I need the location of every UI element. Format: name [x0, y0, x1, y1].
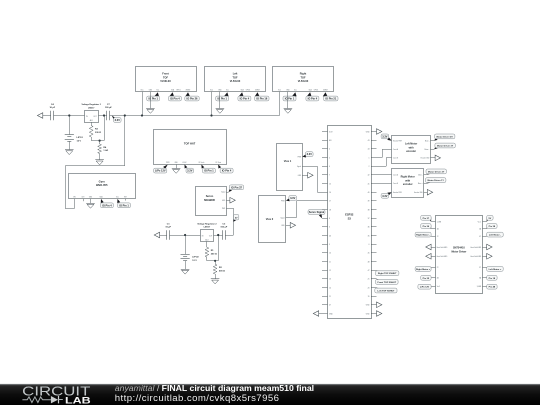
wire Right VCC [279, 92, 281, 116]
svg-text:7: 7 [329, 175, 330, 177]
net flag Right Motor + (driver left pin 6) [415, 267, 431, 272]
wire Vive1 signal [302, 166, 322, 192]
svg-text:OUT: OUT [93, 116, 96, 118]
wire gyro VIN feed [65, 116, 125, 209]
svg-text:SCL: SCL [116, 196, 119, 198]
svg-text:IO Pin 4: IO Pin 4 [240, 97, 250, 101]
svg-text:Vcc1: Vcc1 [478, 222, 482, 224]
svg-text:GPIO1: GPIO1 [314, 89, 319, 91]
svg-text:45: 45 [368, 253, 370, 255]
svg-text:Signal: Signal [297, 166, 302, 168]
net flag IO Pin 1 (HAT SCL) [201, 165, 215, 174]
svg-text:3.3V: 3.3V [115, 118, 121, 122]
svg-text:XSHUT: XSHUT [255, 89, 260, 91]
op-amp U1 Voltage Regulator 1 LM317 [82, 103, 102, 123]
svg-text:VL53L0X: VL53L0X [160, 80, 171, 83]
net flag IO Pin 26 (Front XSHUT) [185, 92, 199, 101]
net flag Front TOF XSHUT (ESP32) [376, 279, 399, 285]
svg-text:Motor Driver 3Y: Motor Driver 3Y [437, 145, 454, 148]
svg-text:Vcc2: Vcc2 [437, 286, 441, 288]
svg-text:43: 43 [368, 140, 370, 142]
svg-text:TOF: TOF [233, 76, 238, 79]
op-amp U7 Voltage Regulator 2 LM317 [197, 222, 217, 241]
svg-text:Motor Driver 4Y: Motor Driver 4Y [437, 135, 454, 138]
terminal servo GND [226, 197, 235, 203]
svg-text:20: 20 [368, 287, 370, 289]
sensor U4 Right TOF VL53L0X [273, 67, 334, 92]
net flag 3.3V (RightMotor Encoder PWR) [381, 192, 392, 198]
svg-text:12 V: 12 V [192, 260, 197, 262]
wire Front VCC [142, 92, 144, 116]
sensor U8 Vive 1 [277, 144, 303, 191]
svg-text:Right: Right [300, 73, 307, 76]
terminal RightMotor Encoder GND [424, 189, 433, 195]
svg-text:GND: GND [218, 89, 221, 91]
svg-text:VCC: VCC [210, 89, 213, 91]
svg-text:IO Pin 1: IO Pin 1 [148, 97, 158, 101]
capacitor C4 [49, 103, 55, 121]
node 3.3V flag tap [112, 116, 121, 123]
node gyro feed rail [124, 114, 126, 116]
node divider 2 [214, 260, 216, 262]
svg-text:4: 4 [329, 149, 330, 151]
net flag IO Pin 4 (Left SDA) [238, 92, 251, 101]
svg-text:Servo Signal: Servo Signal [309, 210, 325, 214]
svg-text:VCC: VCC [140, 89, 143, 91]
svg-text:10 µF: 10 µF [165, 226, 171, 228]
sensor U9 Vive 2 [259, 196, 286, 243]
wire battery to ground [69, 141, 71, 149]
footer title line [115, 383, 314, 393]
net flag 3.3V (HAT LOGIC) [185, 165, 194, 174]
wire gyro GND [90, 199, 92, 203]
servo M1 MG996R [196, 187, 227, 216]
svg-text:XSHUT: XSHUT [323, 89, 328, 91]
terminal ESP32 GND right 1 [377, 302, 382, 308]
terminal input T2 [154, 232, 159, 238]
svg-text:10: 10 [329, 253, 331, 255]
svg-text:39: 39 [368, 201, 370, 203]
node feedback 2 top [217, 234, 219, 236]
svg-text:Pin 48: Pin 48 [489, 286, 496, 289]
svg-text:17: 17 [329, 201, 331, 203]
sensor U2 Front TOF VL53L0X [136, 67, 197, 92]
svg-text:Left Motor +: Left Motor + [489, 268, 502, 271]
svg-text:anyamittal / FINAL circuit dia: anyamittal / FINAL circuit diagram meam5… [115, 383, 314, 393]
svg-text:OUT: OUT [209, 235, 212, 237]
svg-text:Encoder PWR: Encoder PWR [393, 192, 402, 194]
wire Left GND [219, 92, 221, 109]
terminal Vive1 GND [302, 172, 313, 178]
svg-text:SN754410: SN754410 [453, 246, 465, 249]
svg-text:42: 42 [368, 175, 370, 177]
net flag Motor Driver 3Y (LeftMotor Motor+) [431, 143, 456, 149]
wire Left VCC [211, 92, 213, 116]
svg-text:37: 37 [368, 218, 370, 220]
svg-text:40: 40 [368, 192, 370, 194]
svg-text:SCL: SCL [226, 89, 229, 91]
wire ADJ pin 2 [206, 242, 208, 248]
net flag 5V (driver right pin 16) [487, 215, 494, 221]
svg-text:5: 5 [329, 157, 330, 159]
svg-text:Vive 1: Vive 1 [284, 159, 292, 163]
terminal Vive2 GND [286, 223, 296, 229]
wire R4 top [99, 141, 101, 144]
wire ESP32 to RightMotor CountA [377, 174, 392, 176]
wire Vive2 signal [286, 201, 322, 218]
wire R4 to ground [99, 154, 101, 160]
svg-text:Right Motor -: Right Motor - [416, 234, 430, 237]
net flag Pin 48 (driver right pin 9) [487, 284, 497, 289]
battery LIPO2 [181, 255, 200, 263]
svg-text:IO Pin 37: IO Pin 37 [231, 185, 242, 189]
svg-text:IO Pin 21: IO Pin 21 [325, 97, 336, 101]
svg-text:IO Pin 4: IO Pin 4 [102, 203, 112, 207]
svg-text:TOF: TOF [163, 76, 168, 79]
node Left VCC rail [210, 114, 212, 116]
terminal LeftMotor Encoder GND [431, 155, 441, 161]
terminal ESP32 GND left [313, 311, 322, 317]
ground below LIPO2 [181, 270, 190, 275]
svg-text:Pin 36: Pin 36 [423, 226, 430, 228]
resistor R1 [205, 247, 217, 257]
svg-text:PWR: PWR [281, 200, 284, 202]
svg-text:LiPo 12V: LiPo 12V [155, 169, 166, 173]
svg-text:12 V: 12 V [77, 141, 82, 143]
ground below R4 [95, 160, 104, 165]
net flag IO Pin 1 (Front SCL) [147, 92, 160, 101]
svg-text:encoder: encoder [403, 183, 413, 186]
net flag IO Pin 1 (Left SCL) [216, 92, 229, 101]
svg-text:IO Pin 26: IO Pin 26 [187, 97, 198, 101]
ground Front TOF [146, 109, 155, 114]
sensor U6 Gyro BNO-055 [69, 174, 136, 199]
svg-text:Pin 38: Pin 38 [489, 226, 496, 228]
module U5 TOF HAT [154, 130, 227, 165]
wire ESP32 to LeftMotor CountB [377, 158, 392, 167]
svg-text:11: 11 [329, 261, 331, 263]
net flag Servo Signal (ESP32) [308, 210, 325, 219]
svg-text:41: 41 [368, 183, 370, 185]
svg-text:47: 47 [368, 270, 370, 272]
net flag 3.3V (LeftMotor Encoder PWR) [381, 134, 392, 141]
footer bar [0, 384, 540, 405]
svg-text:LOGIC: LOGIC [182, 162, 186, 164]
svg-text:S3: S3 [348, 216, 352, 220]
net flag Right TOF XSHUT (ESP32) [376, 270, 399, 275]
svg-text:Encoder GND: Encoder GND [421, 158, 430, 160]
capacitor C1 [165, 223, 171, 240]
svg-text:19: 19 [368, 296, 370, 298]
svg-text:IO Pin 1: IO Pin 1 [285, 97, 295, 101]
svg-text:Motor Driver 2Y: Motor Driver 2Y [428, 170, 445, 173]
svg-text:IO Pin 4: IO Pin 4 [222, 169, 232, 173]
svg-text:Left Motor -: Left Motor - [489, 234, 501, 237]
svg-text:Encoder GND: Encoder GND [414, 192, 423, 194]
node feedback top [103, 114, 105, 116]
svg-text:Left TOF XSHUT: Left TOF XSHUT [377, 290, 395, 293]
svg-text:6: 6 [329, 166, 330, 168]
net flag IO Pin 4 (Front SDA) [168, 92, 181, 101]
svg-text:12: 12 [329, 270, 331, 272]
net flag 5V (servo supply) [233, 214, 238, 221]
svg-text:1,2EN: 1,2EN [437, 222, 441, 224]
net flag Pin 35 (driver left pin 7) [421, 275, 431, 280]
svg-text:3,4EN: 3,4EN [477, 286, 481, 288]
svg-text:GND: GND [89, 196, 92, 198]
net flag Left Motor + (driver right pin 11) [487, 267, 504, 272]
net flag Motor Driver 2Y (RightMotor Motor-) [424, 169, 447, 175]
net flag IO Pin 37 (Servo Signal) [226, 185, 243, 193]
svg-text:Motor Driver 1Y: Motor Driver 1Y [428, 179, 445, 182]
svg-text:Encoder PWR: Encoder PWR [393, 141, 402, 143]
wire battery drop [69, 116, 71, 135]
svg-text:Right Motor: Right Motor [401, 176, 415, 179]
svg-text:Right TOF XSHUT: Right TOF XSHUT [378, 272, 397, 275]
svg-text:Signal: Signal [281, 217, 286, 219]
wire Right GND [287, 92, 289, 109]
resistor R4 [98, 144, 109, 154]
svg-text:Front TOF XSHUT: Front TOF XSHUT [378, 281, 397, 284]
svg-text:TOF: TOF [301, 76, 306, 79]
wire ADJ pin [91, 122, 93, 125]
svg-text:13: 13 [329, 279, 331, 281]
wire R1 to divider [207, 257, 219, 261]
net flag Left Motor - (driver right pin 14) [487, 232, 504, 237]
svg-text:15: 15 [329, 183, 331, 185]
svg-text:GND: GND [286, 89, 289, 91]
svg-text:100 µF: 100 µF [220, 226, 228, 228]
net flag IO Pin 1 (Gyro SCL) [117, 199, 130, 208]
svg-text:14: 14 [329, 287, 331, 289]
svg-text:BNO-055: BNO-055 [96, 183, 108, 187]
svg-text:38: 38 [368, 209, 370, 211]
svg-text:Pin 35: Pin 35 [423, 278, 430, 280]
motor M3 Right Motor with encoder [392, 169, 424, 198]
net flag 3.3V (Vive1 PWR) [302, 152, 313, 158]
svg-text:LM317: LM317 [88, 107, 95, 109]
terminal driver GND left 1 [426, 244, 431, 250]
svg-text:Right Motor +: Right Motor + [416, 268, 431, 271]
svg-text:47: 47 [329, 305, 331, 307]
wire R2 top [215, 261, 217, 265]
net flag Pin 38 (driver right pin 15) [487, 224, 497, 229]
sensor U3 Left TOF VL53L0X [205, 67, 266, 92]
wire ESP32 to LeftMotor CountA [377, 149, 392, 157]
logo LAB text [65, 394, 91, 405]
capacitor C7 [105, 104, 113, 121]
svg-text:35: 35 [368, 235, 370, 237]
svg-text:IO Pin 1: IO Pin 1 [204, 169, 214, 173]
svg-text:GPIO1: GPIO1 [246, 89, 251, 91]
svg-text:VL53L0X: VL53L0X [298, 80, 309, 83]
svg-text:100 µF: 100 µF [105, 107, 113, 109]
net flag Motor Driver 4Y (LeftMotor Motor-) [431, 134, 455, 141]
svg-text:1: 1 [369, 157, 370, 159]
wire ESP32 to RightMotor CountB [377, 183, 392, 185]
wire battery 2 drop [185, 235, 187, 254]
svg-text:3.3V: 3.3V [382, 134, 388, 138]
svg-text:4Y: 4Y [479, 236, 481, 238]
net flag Motor Driver 1Y (RightMotor Motor+) [424, 178, 446, 184]
wire servo PWR to 5V [226, 208, 233, 235]
svg-text:LiPo 12V: LiPo 12V [420, 287, 430, 289]
net flag IO Pin 21 (Right XSHUT) [323, 92, 338, 101]
svg-text:VIN: VIN [73, 196, 75, 198]
terminal driver GND right 2 [487, 254, 492, 260]
net flag LiPo 12V (HAT PWR) [154, 165, 168, 174]
svg-text:LIPO2: LIPO2 [192, 257, 199, 259]
net flag 3.3V (Vive2 PWR) [286, 196, 297, 202]
node battery 2 junction [184, 234, 186, 236]
net flag Pin 36 (driver left pin 2) [421, 224, 431, 229]
terminal driver GND left 2 [426, 254, 431, 260]
battery LIPO1 [65, 135, 84, 143]
svg-text:Servo: Servo [206, 194, 214, 198]
svg-text:330 Ω: 330 Ω [95, 132, 101, 134]
svg-text:0: 0 [369, 244, 370, 246]
svg-text:Motor Driver: Motor Driver [451, 250, 466, 253]
svg-text:3Y: 3Y [479, 267, 481, 269]
wire feedback 2 [218, 235, 220, 261]
svg-text:Left: Left [233, 73, 238, 76]
svg-text:3: 3 [329, 227, 330, 229]
svg-text:Pin 37: Pin 37 [423, 218, 430, 220]
svg-text:I2C clock: I2C clock [198, 162, 204, 164]
wire SN754410 pin stubs [431, 222, 487, 287]
wire R3 to divider [91, 137, 104, 141]
svg-text:SCL: SCL [294, 89, 297, 91]
svg-text:1 kΩ: 1 kΩ [103, 150, 108, 152]
microcontroller U10 ESP32 S3 [328, 126, 372, 319]
svg-text:16: 16 [329, 192, 331, 194]
terminal ESP32 3V3 top [377, 129, 382, 135]
svg-text:1Y: 1Y [437, 236, 439, 238]
wire Front GND [150, 92, 152, 109]
svg-text:36: 36 [368, 227, 370, 229]
svg-text:3.3V: 3.3V [382, 194, 388, 198]
svg-text:XSHUT: XSHUT [186, 89, 191, 91]
svg-text:21: 21 [329, 296, 331, 298]
logo CIRCUIT text [22, 383, 90, 398]
capacitor C3 [220, 223, 228, 240]
terminal ESP32 GND right 2 [377, 311, 382, 317]
svg-text:IO Pin 4: IO Pin 4 [170, 97, 180, 101]
svg-text:VCC: VCC [278, 89, 281, 91]
wire gyro RST stub [125, 199, 127, 201]
svg-text:IO Pin 1: IO Pin 1 [119, 203, 129, 207]
svg-text:9: 9 [329, 244, 330, 246]
svg-text:encoder: encoder [406, 150, 416, 153]
svg-text:Vive 2: Vive 2 [266, 217, 274, 221]
svg-text:2Y: 2Y [437, 267, 439, 269]
svg-text:GPIO1: GPIO1 [176, 89, 181, 91]
svg-text:46: 46 [329, 235, 331, 237]
svg-text:Voltage Regulator 1: Voltage Regulator 1 [82, 103, 102, 106]
svg-text:44: 44 [368, 149, 370, 151]
svg-text:3.3V: 3.3V [187, 169, 193, 173]
net flag Pin 37 (driver left pin 1) [421, 215, 432, 221]
wire 5V rail [158, 235, 233, 237]
net flag Right Motor - (driver left pin 3) [415, 232, 431, 237]
svg-text:LM317: LM317 [204, 227, 211, 229]
svg-text:RST: RST [124, 196, 127, 198]
terminal input T1 [37, 113, 42, 119]
wire R2 to ground [215, 274, 217, 279]
svg-text:ESP32: ESP32 [345, 212, 354, 216]
svg-text:18: 18 [329, 209, 331, 211]
svg-text:PWR: PWR [298, 156, 301, 158]
ground below LIPO1 [65, 150, 74, 155]
resistor R2 [213, 264, 225, 274]
svg-text:with: with [405, 179, 410, 182]
svg-text:GND: GND [222, 200, 225, 202]
motor M2 Left Motor with encoder [392, 136, 431, 164]
svg-text:500 Ω: 500 Ω [219, 271, 225, 273]
net flag LiPo 12V (driver left pin 8) [418, 284, 431, 289]
svg-text:200 Ω: 200 Ω [211, 254, 217, 256]
footer url line [115, 393, 280, 404]
svg-text:Signal: Signal [221, 192, 226, 194]
ground Left TOF [216, 109, 225, 114]
wire 3.3V rail [42, 115, 280, 117]
svg-text:GND: GND [149, 89, 152, 91]
svg-text:3.3V: 3.3V [307, 152, 313, 156]
svg-text:PWR: PWR [222, 208, 225, 210]
node battery junction [68, 114, 70, 116]
svg-text:10 µF: 10 µF [49, 107, 55, 109]
svg-text:SCL: SCL [156, 89, 159, 91]
svg-text:Gyro: Gyro [99, 179, 106, 183]
net flag IO Pin 16 (Left XSHUT) [255, 92, 269, 101]
svg-text:2: 2 [369, 166, 370, 168]
net flag IO Pin 4 (HAT SDA) [218, 165, 233, 174]
svg-text:IO Pin 4: IO Pin 4 [308, 97, 318, 101]
ground Right TOF [284, 109, 293, 114]
svg-text:21: 21 [368, 279, 370, 281]
svg-text:GND: GND [281, 225, 284, 227]
svg-text:Voltage Regulator 2: Voltage Regulator 2 [197, 222, 217, 225]
svg-text:with: with [409, 146, 414, 149]
svg-text:http://circuitlab.com/cvkq8x5r: http://circuitlab.com/cvkq8x5rs7956 [115, 393, 280, 404]
svg-text:TOF HAT: TOF HAT [184, 141, 196, 145]
wire gyro 3VO stub [83, 199, 85, 201]
svg-text:48: 48 [368, 261, 370, 263]
wire ESP32 pin stubs [322, 132, 377, 314]
svg-text:VL53L0X: VL53L0X [230, 80, 241, 83]
svg-text:MG996R: MG996R [204, 198, 215, 202]
net flag Pin 18 (driver right pin 10) [487, 275, 497, 280]
net flag IO Pin 4 (Right SDA) [306, 92, 319, 101]
driver U11 SN754410 Motor Driver [436, 216, 483, 294]
node divider [99, 140, 101, 142]
ground below R2 [211, 279, 220, 284]
svg-text:LAB: LAB [65, 394, 91, 405]
svg-text:Left Motor: Left Motor [405, 143, 417, 146]
svg-text:PWR: PWR [166, 162, 169, 164]
svg-text:Pin 18: Pin 18 [489, 278, 496, 280]
svg-text:IO Pin 1: IO Pin 1 [217, 97, 227, 101]
ground Gyro [86, 204, 95, 209]
resistor R3 [89, 126, 101, 138]
svg-text:GND: GND [298, 175, 301, 177]
svg-text:3.3V: 3.3V [290, 196, 296, 200]
ground TOF HAT [172, 165, 181, 174]
terminal driver GND right 1 [487, 244, 492, 250]
logo wire resistor diode symbol [22, 396, 62, 404]
wire feedback [104, 116, 106, 141]
svg-text:IO Pin 16: IO Pin 16 [256, 97, 267, 101]
